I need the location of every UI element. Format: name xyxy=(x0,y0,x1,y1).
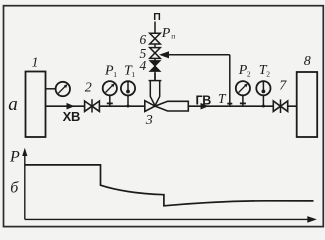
gauge P2 stem xyxy=(242,95,244,106)
valve 4 xyxy=(150,61,161,72)
svg-text:1: 1 xyxy=(32,55,39,70)
thermometer T1 xyxy=(121,81,135,95)
svg-text:8: 8 xyxy=(304,54,311,69)
svg-text:P: P xyxy=(9,148,20,165)
svg-text:а: а xyxy=(8,94,18,115)
pressure gauge G0 xyxy=(56,82,70,96)
wire pipe GV (hot water) xyxy=(188,105,296,107)
svg-text:б: б xyxy=(10,180,19,197)
flow arrow XB xyxy=(67,103,75,110)
graph horizontal axis xyxy=(25,218,309,220)
wire impulse line into valve 5 xyxy=(161,54,230,56)
wire gauge connector xyxy=(46,88,56,90)
svg-text:3: 3 xyxy=(145,113,153,128)
svg-text:1: 1 xyxy=(131,70,135,79)
svg-text:п: п xyxy=(171,31,175,40)
svg-text:2: 2 xyxy=(247,69,251,78)
pressure curve xyxy=(25,165,313,206)
wire stem from P to valve stack xyxy=(154,22,156,81)
valve 3 body xyxy=(145,101,155,112)
flow arrow GV xyxy=(201,103,209,110)
valve 5 xyxy=(150,48,161,59)
svg-text:1: 1 xyxy=(113,70,117,79)
valve 3 actuator xyxy=(149,73,162,106)
tank 1 xyxy=(26,72,46,138)
valve 2 xyxy=(85,99,100,112)
svg-text:4: 4 xyxy=(140,58,147,73)
valve 6 xyxy=(150,33,161,44)
gauge P1 stem xyxy=(109,95,111,106)
valve 7 xyxy=(273,99,287,113)
svg-text:7: 7 xyxy=(279,78,287,93)
thermometer T2 xyxy=(256,81,270,95)
ejector nozzle xyxy=(155,101,188,111)
svg-text:2: 2 xyxy=(266,69,270,78)
svg-text:ГВ: ГВ xyxy=(195,93,211,107)
thermometer T1 stem xyxy=(127,95,129,106)
wire pipe XB (cold water) xyxy=(46,105,145,107)
tank 8 xyxy=(297,72,318,137)
thermometer T2 stem xyxy=(262,95,264,106)
svg-text:P: P xyxy=(161,26,171,41)
gauge P1 xyxy=(103,81,117,95)
svg-text:ХВ: ХВ xyxy=(63,109,80,124)
gauge P2 xyxy=(236,81,250,95)
graph vertical axis xyxy=(24,153,26,219)
svg-text:Т: Т xyxy=(218,91,227,106)
svg-text:6: 6 xyxy=(140,32,147,47)
svg-text:2: 2 xyxy=(85,81,92,96)
svg-text:П: П xyxy=(153,11,161,23)
